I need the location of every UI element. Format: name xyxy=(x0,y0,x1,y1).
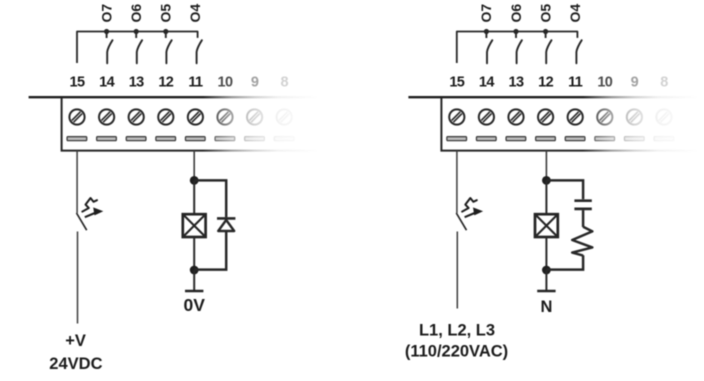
svg-text:13: 13 xyxy=(129,75,144,91)
svg-text:O4: O4 xyxy=(567,4,583,23)
svg-text:10: 10 xyxy=(597,75,612,91)
svg-text:15: 15 xyxy=(449,75,464,91)
svg-text:14: 14 xyxy=(479,75,494,91)
svg-text:9: 9 xyxy=(251,75,259,91)
svg-text:O7: O7 xyxy=(478,4,494,23)
svg-text:12: 12 xyxy=(538,75,553,91)
svg-text:O4: O4 xyxy=(187,4,203,23)
svg-text:11: 11 xyxy=(568,75,583,91)
svg-text:+V: +V xyxy=(65,332,86,350)
svg-text:O6: O6 xyxy=(508,4,524,23)
svg-text:15: 15 xyxy=(70,75,85,91)
svg-text:0V: 0V xyxy=(183,295,205,315)
svg-text:(110/220VAC): (110/220VAC) xyxy=(405,343,508,361)
svg-text:8: 8 xyxy=(280,75,288,91)
svg-text:O6: O6 xyxy=(128,4,144,23)
svg-text:14: 14 xyxy=(99,75,114,91)
svg-text:11: 11 xyxy=(188,75,203,91)
svg-text:8: 8 xyxy=(660,75,668,91)
svg-text:12: 12 xyxy=(158,75,173,91)
svg-text:10: 10 xyxy=(218,75,233,91)
svg-text:L1, L2, L3: L1, L2, L3 xyxy=(419,322,495,340)
svg-text:O5: O5 xyxy=(537,4,553,23)
svg-text:O7: O7 xyxy=(98,4,114,23)
svg-text:9: 9 xyxy=(631,75,639,91)
svg-text:N: N xyxy=(540,298,552,316)
svg-text:O5: O5 xyxy=(158,4,174,23)
svg-text:24VDC: 24VDC xyxy=(49,355,102,373)
svg-text:13: 13 xyxy=(509,75,524,91)
